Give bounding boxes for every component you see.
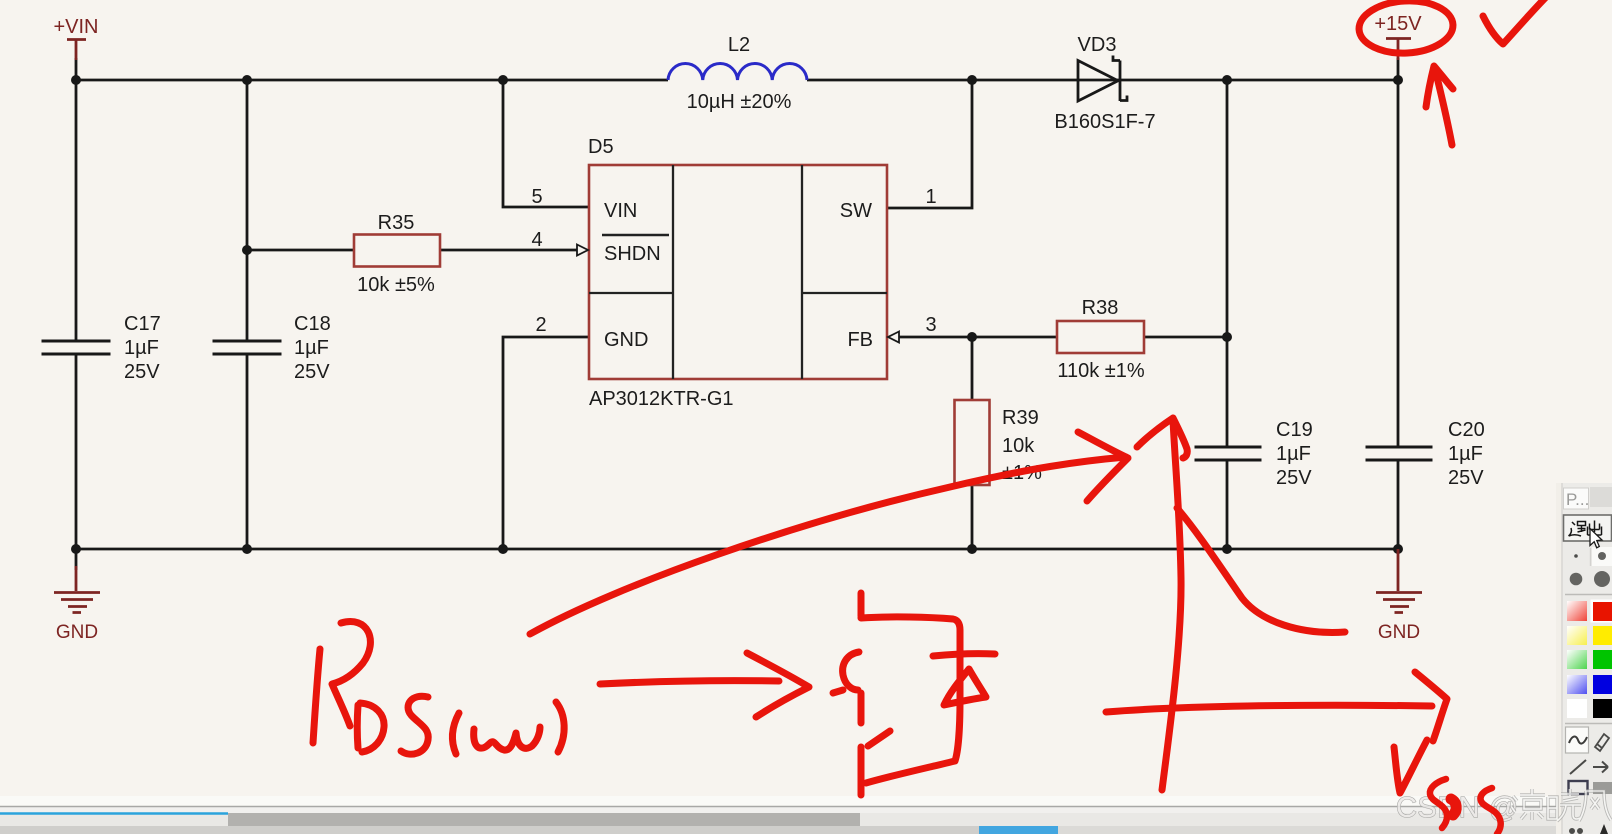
power symbol +VIN (53, 16, 98, 60)
svg-text:2: 2 (535, 314, 546, 336)
red annotation: branch curve to GND area (1177, 508, 1345, 632)
svg-text:4: 4 (531, 229, 542, 251)
IC D5 AP3012KTR-G1 (boost converter) (588, 136, 887, 410)
svg-text:GND: GND (604, 329, 648, 351)
red annotation: handwriting ) (556, 702, 564, 752)
svg-text:25V: 25V (1276, 467, 1312, 489)
red swatches (1567, 601, 1587, 621)
svg-text:SHDN: SHDN (604, 243, 661, 265)
svg-text:C17: C17 (124, 313, 161, 335)
exit button text 退出 (1569, 521, 1602, 537)
junction bottom rail at pin2 drop (498, 544, 508, 554)
red annotation: body diode bar (933, 654, 995, 656)
svg-text:R39: R39 (1002, 407, 1039, 429)
red annotation: handwriting ( (452, 713, 459, 754)
red annotation: body diode triangle (944, 669, 986, 705)
pen size large dot (1570, 573, 1583, 586)
toolbar panel (1556, 483, 1612, 834)
squiggle pen tool (selected) (1566, 727, 1589, 753)
svg-text:SW: SW (840, 200, 872, 222)
junction R38 right node (1222, 332, 1232, 342)
mouse cursor (1590, 529, 1602, 548)
svg-text:R38: R38 (1082, 297, 1119, 319)
arrow tool (1593, 762, 1608, 773)
wire R35 left (247, 249, 354, 252)
svg-text:GND: GND (56, 622, 98, 643)
svg-text:3: 3 (925, 314, 936, 336)
junction bottom rail at C20/GND (1393, 544, 1403, 554)
svg-text:110k ±1%: 110k ±1% (1057, 360, 1145, 382)
inductor L2 (668, 34, 807, 113)
wire top rail left of L2 (76, 79, 668, 82)
wire pin 3 FB to R38 (898, 336, 1057, 339)
line tool (1570, 760, 1586, 774)
ground symbol left GND (54, 566, 100, 643)
junction R35 left node (242, 245, 252, 255)
red annotation: small dash left of transistor (833, 690, 843, 693)
partial bottom icons (1569, 828, 1575, 834)
resistor R35 (354, 212, 440, 296)
resistor R38 (1057, 297, 1145, 382)
red annotation: arrow up to +15V (1426, 66, 1453, 145)
svg-text:5: 5 (531, 186, 542, 208)
svg-text:FB: FB (847, 329, 873, 351)
red annotation: handwriting s2 (1480, 788, 1500, 834)
bottom scrollbar area (0, 796, 1612, 834)
junction top rail at VIN (71, 75, 81, 85)
svg-text:C19: C19 (1276, 419, 1313, 441)
white swatch (1567, 699, 1587, 718)
rectangle tool (1569, 781, 1588, 794)
svg-text:VIN: VIN (604, 200, 637, 222)
red annotation: transistor left segments (861, 693, 890, 795)
capacitor C20 (1366, 419, 1485, 489)
diode VD3 (1054, 34, 1155, 133)
junction top rail at SW riser (967, 75, 977, 85)
svg-text:1µF: 1µF (294, 337, 329, 359)
red annotation: transistor drawing outline (861, 617, 960, 783)
junction bottom rail at R39 (967, 544, 977, 554)
wire R35 right to pin 4 (440, 249, 577, 252)
wire pin 1 SW riser (887, 80, 972, 208)
wire R39 branch (971, 337, 974, 549)
junction top rail at +15V (1393, 75, 1403, 85)
svg-text:25V: 25V (294, 361, 330, 383)
wire C19 branch vertical (1226, 80, 1229, 549)
svg-text:P...: P... (1566, 490, 1589, 509)
svg-text:VD3: VD3 (1078, 34, 1117, 56)
svg-text:1µF: 1µF (124, 337, 159, 359)
red annotation: handwriting S subscript (401, 696, 428, 754)
wire R38 right to node (1144, 336, 1227, 339)
junction top rail at pin5 riser (498, 75, 508, 85)
red annotation: horizontal arrow to transistor (600, 653, 809, 717)
wire C18 branch vertical (246, 80, 249, 549)
power symbol +15V (1374, 13, 1422, 60)
svg-text:L2: L2 (728, 34, 750, 56)
wire bottom rail (76, 548, 1398, 551)
junction top rail at C19 (1222, 75, 1232, 85)
capacitor C19 (1195, 419, 1313, 489)
svg-text:C20: C20 (1448, 419, 1485, 441)
wire pin 2 GND drop (503, 337, 589, 549)
red annotation: handwriting V bottom right (1394, 740, 1427, 793)
red annotation: check mark top right (1483, 0, 1551, 44)
wire top rail right of L2 (807, 79, 1398, 82)
junction FB node at R39 (967, 332, 977, 342)
junction bottom rail at C17 (71, 544, 81, 554)
watermark CSDN @凉晓风 (1396, 789, 1611, 824)
svg-text:25V: 25V (1448, 467, 1484, 489)
resistor R39 (955, 400, 1043, 485)
svg-text:B160S1F-7: B160S1F-7 (1054, 111, 1155, 133)
svg-text:10k ±5%: 10k ±5% (357, 274, 435, 296)
wire +15V output branch (1397, 58, 1400, 549)
junction top rail at C18 (242, 75, 252, 85)
svg-text:1µF: 1µF (1448, 443, 1483, 465)
red annotation: long swoop from RDS(on) to R39 (530, 457, 1126, 634)
red annotation: handwriting on (474, 727, 540, 750)
pin 4 input arrow (577, 245, 588, 256)
capacitor C18 (213, 313, 331, 383)
svg-text:R35: R35 (378, 212, 415, 234)
svg-text:1: 1 (925, 186, 936, 208)
svg-text:1µF: 1µF (1276, 443, 1311, 465)
pen size small dot (1574, 554, 1578, 558)
black swatch (1593, 699, 1612, 718)
ground symbol right GND (1376, 549, 1422, 643)
svg-text:+VIN: +VIN (53, 16, 98, 38)
red annotation: tall arrow through bottom rail (1162, 420, 1181, 790)
svg-text:10µH ±20%: 10µH ±20% (687, 91, 792, 113)
svg-text:GND: GND (1378, 622, 1420, 643)
blue swatches (1567, 675, 1587, 694)
red annotation: transistor gate curl (843, 652, 859, 690)
red annotation: handwriting R (313, 649, 320, 743)
red annotation: circle around +15V (313, 0, 1551, 834)
red annotation: red blob on D (1451, 799, 1456, 815)
svg-text:AP3012KTR-G1: AP3012KTR-G1 (589, 388, 734, 410)
wire pin 5 VIN riser (503, 80, 589, 207)
red annotation: transistor drawing top stub (858, 593, 865, 616)
pen size xlarge dot (1594, 571, 1610, 587)
wire left branch (VIN to C17 to GND) (75, 58, 78, 570)
capacitor C17 (42, 313, 161, 383)
svg-text:+15V: +15V (1374, 13, 1422, 35)
green swatches (1567, 650, 1587, 669)
svg-text:10k: 10k (1002, 435, 1035, 457)
junction bottom rail at C18 (242, 544, 252, 554)
red annotation: big horizontal arrow (1106, 672, 1447, 741)
pen size medium dot (1598, 552, 1606, 560)
eraser tool (1595, 734, 1609, 751)
red annotation: handwriting D subscript (357, 703, 384, 752)
filled rectangle tool (1593, 782, 1612, 794)
yellow swatches (1567, 626, 1587, 645)
pin 3 input arrow (888, 332, 899, 343)
junction bottom rail at C19 (1222, 544, 1232, 554)
svg-text:D5: D5 (588, 136, 614, 158)
svg-text:25V: 25V (124, 361, 160, 383)
svg-text:C18: C18 (294, 313, 331, 335)
red annotation: handwriting s1 (1430, 779, 1447, 828)
